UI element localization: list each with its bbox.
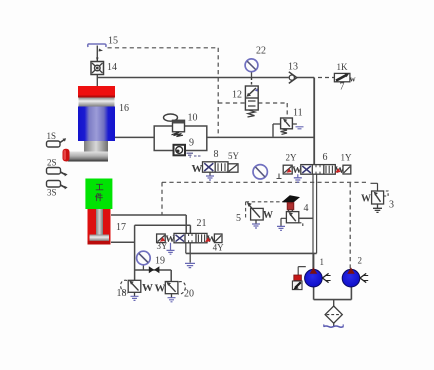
svg-text:11: 11 [293, 108, 303, 119]
gauge by valve 6 [253, 165, 267, 179]
proximity sensor 1S [47, 138, 67, 147]
suction filter [325, 306, 342, 323]
svg-text:13: 13 [288, 62, 298, 73]
arrow mark at stop junction [99, 49, 103, 52]
wire valve 4 to riser y218.3 [299, 217, 313, 219]
wire cylinder 17 cap-side y242 [111, 225, 135, 270]
tank below valve 5 [252, 224, 260, 228]
wire pump 1 suction loop [314, 253, 352, 299]
svg-text:5: 5 [236, 213, 241, 224]
svg-text:7: 7 [340, 82, 345, 93]
svg-text:3: 3 [389, 200, 394, 211]
svg-text:3Y: 3Y [157, 241, 169, 251]
relief valve 20 [165, 282, 185, 298]
pump 1 [305, 267, 331, 287]
check block 14 [91, 62, 104, 75]
proximity sensor 3S [47, 181, 68, 190]
svg-text:9: 9 [189, 138, 194, 149]
pilot valve 12 [245, 78, 258, 118]
pressure gauge 19 [137, 251, 151, 270]
throttle valve 19 [149, 266, 160, 273]
dashed pilot valve5 to valve4 y201.5 [246, 197, 290, 220]
svg-text:W: W [142, 282, 153, 294]
svg-text:6: 6 [323, 152, 328, 163]
solenoid valve 6 (2Y,1Y) [283, 165, 351, 177]
proximity sensor 2S [47, 168, 68, 177]
svg-text:15: 15 [108, 36, 118, 47]
dashed pilot line y103 valve 12 [218, 103, 287, 115]
svg-text:8: 8 [214, 149, 219, 160]
wire valve 21 T drop to tank [189, 253, 191, 262]
svg-text:1K: 1K [337, 62, 349, 72]
tank below valve 6 [294, 174, 302, 182]
check valve 13 [289, 72, 297, 84]
wire filter stem [333, 300, 335, 326]
svg-text:10: 10 [188, 113, 198, 124]
solenoid valve 21 (3Y,4Y) [157, 233, 222, 245]
svg-text:W: W [361, 194, 371, 205]
svg-text:1: 1 [320, 257, 325, 267]
pressure tap unit left of pump 1 [292, 275, 302, 290]
wire pump1 pilot tap [298, 267, 306, 275]
workpiece block on cylinder 17 [85, 179, 112, 210]
cylinder 16 [63, 86, 116, 162]
drain mark below valve 9 [187, 153, 201, 157]
svg-text:16: 16 [119, 103, 129, 114]
tank below valve 18 [131, 296, 139, 300]
pressure switch 7 (1K) [334, 73, 355, 84]
solenoid valve 8 (5Y) [192, 162, 239, 175]
wire main vertical riser x314 [313, 78, 315, 166]
svg-text:工: 工 [96, 183, 104, 192]
svg-text:3S: 3S [47, 188, 57, 198]
check valve 9 [174, 145, 186, 156]
cylinder 17 [88, 209, 111, 245]
wire from stop 15 through check block 14 to cylinder 16 top [96, 46, 98, 87]
tank under filter [324, 324, 344, 327]
svg-text:1S: 1S [47, 131, 57, 141]
tank below valve 8 [206, 172, 214, 180]
dashed line to pressure switch 7 [318, 77, 334, 79]
stop bracket 15 [88, 44, 106, 47]
svg-text:2S: 2S [47, 158, 57, 168]
pressure gauge 22 [245, 59, 258, 78]
wire valve 21 bottom double ports [186, 243, 190, 254]
pump 2 [342, 267, 368, 287]
wire throttle line y270 [135, 270, 172, 282]
svg-text:W: W [155, 283, 166, 295]
svg-text:1Y: 1Y [341, 152, 353, 162]
svg-text:4: 4 [304, 203, 309, 214]
svg-text:件: 件 [95, 192, 103, 202]
relief valve 5 [247, 202, 263, 223]
wire pump line y253.4 to riser [186, 252, 317, 254]
tank below valve 21 left [167, 243, 175, 254]
svg-text:21: 21 [197, 218, 207, 229]
wire cylinder 17 rod-side y215 to valve 21 [111, 215, 186, 233]
svg-text:4Y: 4Y [213, 242, 225, 252]
svg-text:19: 19 [155, 256, 165, 267]
svg-text:w: w [350, 75, 356, 84]
tank below valve 20 [168, 298, 176, 302]
wire double vertical below valve 6 [313, 174, 317, 270]
relief valve 18 [121, 280, 141, 296]
dashed pilot vertical x218 [217, 48, 219, 138]
tank below valve 4 [277, 226, 285, 230]
arrow mark above block 14 [96, 58, 99, 62]
wire main pressure line y77.5 [97, 77, 314, 79]
dashed drain manifold y182 [162, 181, 366, 183]
wire upper work line y225 to valve 21 [135, 225, 191, 233]
svg-text:22: 22 [256, 46, 266, 57]
dashed drain left edge x162 [161, 182, 163, 215]
tank at valve 21 T-line [185, 263, 195, 267]
dashed pump 2 line x350 [349, 183, 351, 269]
wire cylinder 16 to sequence block [115, 136, 154, 138]
small tank mark left of valve 6 [277, 174, 282, 179]
svg-text:2Y: 2Y [286, 152, 298, 162]
svg-text:17: 17 [116, 222, 126, 233]
reducing valve 4 [281, 196, 303, 227]
svg-text:14: 14 [107, 62, 117, 73]
tank mark valve 11 [296, 127, 304, 129]
relief valve 3 [371, 183, 389, 212]
svg-text:12: 12 [232, 90, 242, 101]
wire sequence block to riser y137.4 [207, 136, 314, 138]
svg-text:W: W [192, 163, 203, 175]
svg-text:W: W [263, 210, 273, 221]
sequence valve block loop (9,10) [154, 126, 207, 151]
sequence valve 10 [164, 114, 185, 137]
svg-text:5Y: 5Y [228, 151, 240, 161]
relief valve 11 [273, 118, 297, 137]
svg-text:2: 2 [358, 256, 363, 266]
svg-text:20: 20 [184, 289, 194, 300]
svg-text:18: 18 [117, 288, 127, 299]
dashed pilot from stop 15 y48 [108, 47, 219, 49]
